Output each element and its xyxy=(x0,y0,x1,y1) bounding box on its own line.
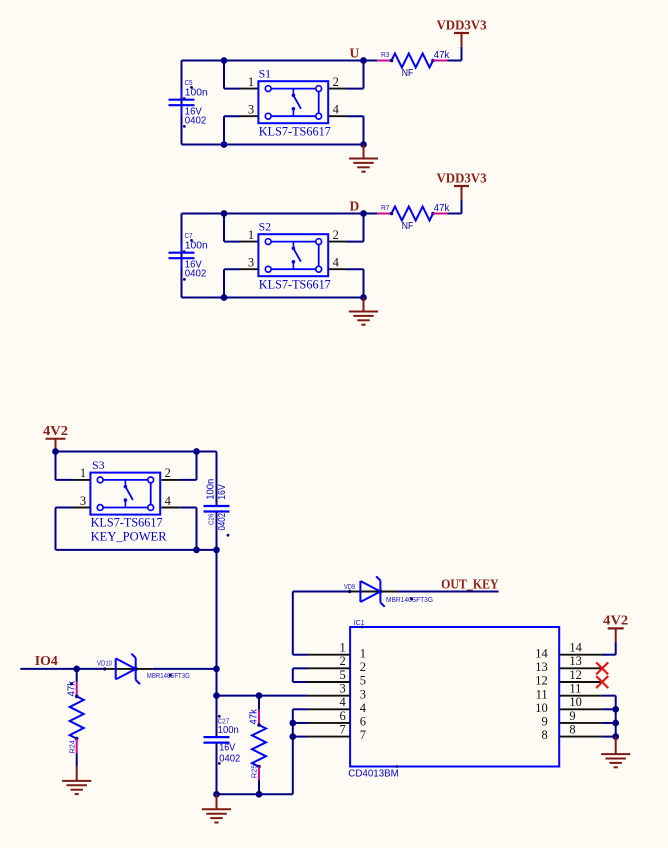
svg-text:R3: R3 xyxy=(381,52,390,59)
svg-text:VDD3V3: VDD3V3 xyxy=(437,170,487,185)
svg-text:16V: 16V xyxy=(216,484,228,500)
svg-text:3: 3 xyxy=(248,256,254,270)
svg-text:10: 10 xyxy=(569,695,582,709)
svg-text:KLS7-TS6617: KLS7-TS6617 xyxy=(259,276,331,291)
svg-text:12: 12 xyxy=(535,674,548,688)
svg-text:100n: 100n xyxy=(218,724,239,736)
svg-text:VDD3V3: VDD3V3 xyxy=(437,17,487,32)
svg-text:2: 2 xyxy=(333,228,339,242)
svg-text:6: 6 xyxy=(360,715,366,729)
svg-text:4: 4 xyxy=(360,701,367,715)
svg-text:KLS7-TS6617: KLS7-TS6617 xyxy=(91,515,163,530)
svg-text:5: 5 xyxy=(340,668,346,682)
svg-text:7: 7 xyxy=(340,722,346,736)
svg-text:100n: 100n xyxy=(205,479,217,500)
svg-text:13: 13 xyxy=(569,654,582,668)
svg-text:4: 4 xyxy=(165,494,172,508)
svg-text:R25: R25 xyxy=(249,765,258,779)
svg-text:3: 3 xyxy=(248,103,254,117)
svg-text:9: 9 xyxy=(541,715,547,729)
svg-text:NF: NF xyxy=(402,220,414,232)
svg-text:7: 7 xyxy=(360,728,366,742)
svg-text:MBR140SFT3G: MBR140SFT3G xyxy=(386,595,433,604)
svg-text:3: 3 xyxy=(360,687,366,701)
svg-text:11: 11 xyxy=(536,687,548,701)
svg-text:1: 1 xyxy=(80,466,86,480)
svg-text:VD10: VD10 xyxy=(97,658,112,667)
svg-text:8: 8 xyxy=(569,722,575,736)
svg-text:S2: S2 xyxy=(259,222,272,234)
svg-text:1: 1 xyxy=(248,75,254,89)
svg-text:2: 2 xyxy=(340,654,346,668)
svg-text:6: 6 xyxy=(340,709,346,723)
svg-text:10: 10 xyxy=(535,701,548,715)
svg-text:2: 2 xyxy=(333,75,339,89)
svg-text:9: 9 xyxy=(569,709,575,723)
svg-text:IC1: IC1 xyxy=(354,618,365,627)
svg-text:47k: 47k xyxy=(434,202,450,214)
svg-text:4V2: 4V2 xyxy=(43,423,68,438)
svg-text:11: 11 xyxy=(569,681,581,695)
svg-text:100n: 100n xyxy=(185,240,208,252)
svg-text:0402: 0402 xyxy=(219,752,240,764)
svg-text:1: 1 xyxy=(360,646,366,660)
svg-text:4: 4 xyxy=(333,103,340,117)
svg-text:1: 1 xyxy=(340,641,346,655)
svg-text:0402: 0402 xyxy=(185,115,207,127)
svg-text:3: 3 xyxy=(340,681,346,695)
svg-text:14: 14 xyxy=(569,641,582,655)
svg-text:OUT_KEY: OUT_KEY xyxy=(441,576,499,591)
svg-text:2: 2 xyxy=(360,660,366,674)
svg-text:4: 4 xyxy=(333,256,340,270)
svg-text:D: D xyxy=(350,198,360,213)
svg-text:2: 2 xyxy=(165,466,171,480)
svg-text:IO4: IO4 xyxy=(35,653,58,668)
svg-text:R7: R7 xyxy=(381,205,390,212)
svg-text:NF: NF xyxy=(402,67,414,79)
svg-text:4: 4 xyxy=(340,695,347,709)
svg-text:C26: C26 xyxy=(206,514,215,526)
svg-text:MBR140SFT3G: MBR140SFT3G xyxy=(147,671,190,680)
svg-text:KEY_POWER: KEY_POWER xyxy=(91,529,167,544)
svg-text:R24: R24 xyxy=(68,740,77,754)
svg-text:14: 14 xyxy=(535,646,548,660)
svg-text:4V2: 4V2 xyxy=(603,613,628,628)
svg-text:0402: 0402 xyxy=(216,513,228,531)
svg-text:47k: 47k xyxy=(247,708,259,724)
svg-text:12: 12 xyxy=(569,668,582,682)
svg-text:U: U xyxy=(350,45,360,60)
svg-text:CD4013BM: CD4013BM xyxy=(348,767,399,779)
svg-text:0402: 0402 xyxy=(185,268,207,280)
svg-text:VD9: VD9 xyxy=(344,582,355,591)
svg-text:100n: 100n xyxy=(185,87,208,99)
svg-text:S1: S1 xyxy=(259,69,272,81)
svg-text:8: 8 xyxy=(541,728,547,742)
svg-text:5: 5 xyxy=(360,674,366,688)
svg-text:KLS7-TS6617: KLS7-TS6617 xyxy=(259,123,331,138)
svg-text:13: 13 xyxy=(535,660,548,674)
svg-text:47k: 47k xyxy=(434,49,450,61)
svg-text:S3: S3 xyxy=(92,460,105,472)
svg-text:3: 3 xyxy=(80,494,86,508)
svg-text:1: 1 xyxy=(248,228,254,242)
